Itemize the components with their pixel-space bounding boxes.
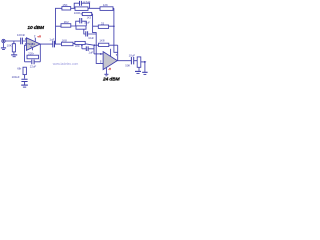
svg-text:100uF: 100uF	[12, 75, 20, 79]
wire node to pin3 vertical	[93, 45, 95, 54]
svg-text:220r: 220r	[75, 45, 80, 48]
ground bottom left	[21, 85, 28, 87]
wire R7 to output drop	[109, 45, 118, 61]
wire feedback bottom op1	[25, 61, 41, 63]
svg-text:100nF: 100nF	[17, 33, 25, 37]
ground wiper	[142, 72, 147, 74]
svg-text:220r: 220r	[28, 52, 34, 56]
wire C8 to ground	[24, 82, 26, 85]
ground pot	[135, 71, 141, 73]
resistor R8 33	[98, 25, 108, 28]
wire C4 row	[76, 21, 87, 26]
resistor R1 10K vertical	[12, 44, 15, 52]
capacitor C2 1uF coupling	[53, 41, 55, 48]
svg-text:68r: 68r	[17, 67, 21, 71]
ground input	[1, 48, 6, 50]
wire rail left tall	[56, 8, 62, 44]
svg-text:2: 2	[100, 59, 102, 63]
resistor R10 box4	[76, 26, 86, 29]
node junction dot C6	[81, 45, 83, 47]
wire op1 pin4 stub	[32, 48, 34, 51]
wire op1 output drop rail	[39, 44, 41, 62]
resistor R3 100K	[75, 7, 88, 10]
capacitor C6 1uF	[86, 46, 88, 51]
resistor R7 1K8	[99, 43, 109, 46]
wire op2 output	[117, 60, 137, 62]
wire top row	[71, 7, 114, 9]
wire op1 output row	[40, 44, 98, 46]
wire pot wiper drop	[144, 62, 146, 72]
wire C5 row	[84, 29, 96, 34]
wire op1 pin7 stub	[34, 38, 36, 42]
wire drop to C6	[81, 44, 83, 48]
wire R8 row	[93, 25, 114, 27]
wire C6 row	[82, 48, 94, 50]
capacitor C9 output 10uF	[131, 57, 133, 64]
op-amp U1 TL081	[26, 38, 40, 51]
wire op1 pin2 to rail	[25, 45, 27, 62]
svg-text:www.ladelec.com: www.ladelec.com	[53, 62, 79, 66]
svg-text:24 dBM: 24 dBM	[102, 76, 121, 82]
svg-text:1K8: 1K8	[99, 39, 105, 43]
capacitor C8 100uF	[21, 79, 27, 81]
wire R6 stubs	[81, 13, 93, 15]
wire input to C1	[5, 40, 26, 42]
svg-text:33: 33	[101, 22, 105, 26]
capacitor C3 4.7uF	[80, 1, 82, 6]
wire R13 to C8	[24, 75, 26, 79]
node junction wiper	[144, 61, 146, 63]
connector J1 input	[2, 39, 5, 42]
wire R1 bottom stub	[13, 52, 15, 55]
svg-text:50K: 50K	[125, 64, 130, 68]
ground op2 pin4	[104, 74, 108, 76]
capacitor C1 100nF	[21, 38, 23, 45]
resistor R2 15K	[62, 7, 71, 10]
svg-text:12K: 12K	[103, 3, 108, 7]
svg-text:1uF: 1uF	[49, 37, 54, 41]
resistor R12 220r feedback op1	[27, 55, 39, 59]
svg-text:10uF: 10uF	[84, 22, 90, 25]
svg-text:15K: 15K	[62, 3, 67, 7]
wire pot bottom	[138, 67, 140, 71]
wire rail mid	[93, 14, 104, 64]
svg-text:10uF: 10uF	[129, 53, 136, 57]
wire input jack to ground	[2, 43, 4, 47]
svg-text:+V: +V	[37, 34, 41, 38]
svg-text:2K2: 2K2	[64, 20, 69, 24]
svg-text:10K: 10K	[7, 43, 12, 47]
node junction dot	[113, 25, 115, 27]
wire op2 pin7 stub	[110, 49, 112, 57]
wire rail right tall	[114, 8, 118, 52]
wire C3 loop	[74, 3, 89, 8]
svg-text:1uF: 1uF	[88, 50, 93, 54]
node junction dot pin3 net	[94, 44, 96, 46]
svg-text:100K: 100K	[74, 11, 81, 15]
svg-text:10 dBM: 10 dBM	[27, 25, 45, 31]
op-amp U2	[103, 52, 117, 70]
resistor R11 box5	[75, 41, 85, 44]
wire op2 pin4 stub	[105, 68, 107, 75]
wire op2 pin3	[94, 53, 103, 55]
svg-text:1K3: 1K3	[87, 17, 92, 20]
capacitor C5	[86, 31, 88, 36]
resistor R5 1K8	[62, 42, 74, 46]
resistor R6 row2	[82, 12, 91, 15]
resistor R4 12K	[100, 7, 113, 11]
svg-text:22uF: 22uF	[30, 64, 37, 68]
svg-text:1K8: 1K8	[62, 39, 68, 43]
resistor R9 2K2	[61, 24, 71, 28]
capacitor C7 feedback op1	[32, 60, 34, 65]
svg-text:10uF: 10uF	[88, 37, 94, 40]
capacitor C4	[80, 18, 82, 23]
potentiometer P1	[137, 57, 146, 67]
ground R1	[11, 55, 17, 57]
svg-text:4.7uF: 4.7uF	[83, 0, 91, 4]
wire R1 top stub	[13, 41, 15, 44]
resistor R13 68r vertical	[23, 67, 26, 74]
wire R9 row	[56, 25, 76, 27]
svg-text:-V: -V	[108, 67, 111, 71]
